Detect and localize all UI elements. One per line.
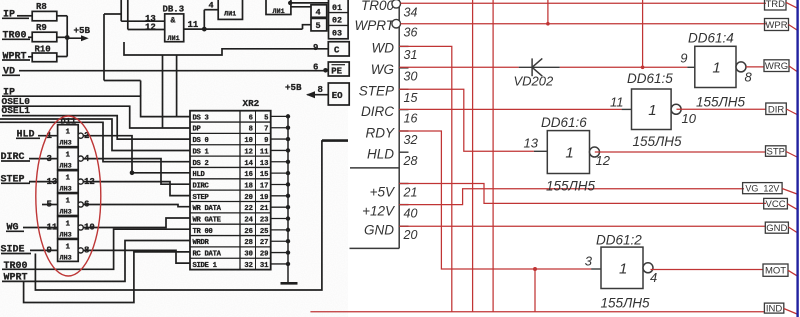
wire TR00 to R9 (28, 36, 32, 38)
SIDE underline (1, 253, 31, 255)
pin 4 cell box (311, 5, 327, 17)
wire bottom bus to IND (310, 311, 765, 313)
wire VD underline (2, 74, 20, 76)
diode VD202 cathode bar (531, 58, 533, 76)
resistor R10 (32, 53, 57, 62)
XR2 row divider 6 (190, 178, 271, 180)
wire RDY to DD61:2 input (399, 131, 591, 269)
svg-text:28: 28 (403, 154, 418, 168)
svg-text:1: 1 (619, 260, 627, 277)
wire vertical bus 1 from top (472, 0, 474, 312)
wire junction down to bottom bus (534, 269, 536, 312)
net label TRD (765, 0, 787, 10)
wire SIDE net loop to scan edge (35, 141, 348, 290)
scanned paper noise (0, 0, 348, 317)
XR2 pin column divider (255, 111, 257, 270)
junction ground bus row DS 2 (286, 160, 290, 164)
net label MOT (763, 264, 788, 276)
wire DIRC to DD61:5 input (399, 108, 621, 110)
junction node on pin 11 net (202, 27, 207, 32)
wire to inverter 4 pin 5 (42, 204, 58, 206)
XR2 row HLD ground stub (271, 172, 288, 174)
XR2 row WRDR ground stub (271, 240, 288, 242)
junction ground bus row WRDR (286, 239, 290, 243)
XR2 row divider 5 (190, 166, 271, 168)
wire into gate1 input (204, 9, 218, 11)
inverter 4 output bubble (78, 202, 83, 207)
connector tick pin 31 (399, 45, 408, 47)
svg-text:1: 1 (565, 145, 573, 162)
svg-text:TR00: TR00 (361, 0, 395, 13)
wire WPRT to R10 (28, 56, 32, 58)
XR2 row divider 3 (190, 144, 271, 146)
XR2 row DS 1 ground stub (271, 149, 288, 151)
wire HLD to inverter 1 (38, 135, 58, 137)
svg-text:DD61:4: DD61:4 (688, 31, 734, 46)
XR2 row DS 0 ground stub (271, 138, 288, 140)
resistor R8 (32, 11, 57, 20)
diode VD202 triangle (532, 58, 542, 76)
svg-text:TRD: TRD (765, 0, 785, 10)
IC pin cell C (328, 42, 349, 56)
IC pin cell PE (328, 62, 349, 76)
svg-text:WRG: WRG (765, 61, 788, 72)
wire R10 right (57, 56, 67, 58)
XR2 row divider 8 (190, 201, 271, 203)
DD61:6 input stub (534, 150, 547, 152)
junction above gate (288, 1, 292, 5)
wire WPRT net from top (547, 0, 549, 24)
XR2 row RC DATA ground stub (271, 252, 288, 254)
connector XR2 table (190, 111, 271, 270)
connector tick pin 32 (399, 130, 408, 132)
inverter 3 output bubble (78, 179, 83, 184)
resistor R9 (32, 32, 57, 42)
cell divider 01/02 (329, 12, 349, 14)
inverter D11 element 1 (LN3) (58, 125, 79, 147)
XR2 row divider 13 (190, 257, 271, 259)
wire into DB.3 pin 13 (121, 20, 165, 22)
net label VCC (764, 198, 788, 209)
junction ground bus row SIDE 1 (286, 262, 290, 266)
svg-text:HLD: HLD (367, 147, 394, 162)
inverter 6 output bubble (78, 248, 83, 253)
junction at PE pin (323, 68, 328, 73)
connector tick pin 28 (399, 151, 408, 153)
wire drop to DP row (162, 55, 164, 128)
svg-text:GND: GND (364, 222, 394, 237)
svg-text:1: 1 (648, 102, 656, 119)
wire inverter2 out to XR2 DIRC row (83, 159, 190, 185)
thick stub at scan edge (322, 139, 348, 141)
junction ground bus row STEP (286, 194, 290, 198)
wire SIDE to inverter 6 (30, 249, 58, 251)
junction ground bus row WR DATA (286, 205, 290, 209)
svg-text:MOT: MOT (765, 266, 786, 277)
PE overline (332, 64, 346, 66)
svg-text:16: 16 (404, 111, 418, 125)
XR2 row DIRC ground stub (271, 183, 288, 185)
svg-text:155ЛН5: 155ЛН5 (696, 95, 746, 110)
IC data pin cells 01-03 (329, 0, 349, 39)
connector tick pin 16 (399, 109, 408, 111)
wire DD61:2 out to MOT (651, 269, 764, 271)
wire WG to VD202 (399, 66, 519, 68)
connector edge vertical (398, 0, 400, 248)
net label VG_12V (743, 183, 783, 194)
wire TR00 to XR2 TR00 row (2, 229, 190, 269)
svg-text:VG_12V: VG_12V (745, 184, 779, 194)
DD61:5 input stub (622, 108, 632, 110)
wire +5V to VCC (399, 184, 766, 204)
wire +5V to EO pin 8 (307, 94, 328, 96)
XR2 row divider 12 (190, 246, 271, 248)
wire TR00 underline (2, 38, 30, 40)
svg-text:VD202: VD202 (514, 74, 555, 89)
wire OSEL0 to XR2 row DP (2, 106, 190, 128)
svg-text:21: 21 (403, 185, 418, 199)
XR2 row DS 2 ground stub (271, 161, 288, 163)
pin 5 cell box (311, 18, 327, 31)
junction ground bus row DIRC (286, 182, 290, 186)
inverter D11 element 4 (LN3) (58, 194, 79, 216)
wire inverter3 out to XR2 STEP row (83, 182, 190, 196)
wire WG to inverter 5 (23, 227, 58, 229)
svg-text:12: 12 (596, 153, 611, 168)
AND gate D8.3 (LI1) (165, 14, 184, 42)
net label DIR (766, 103, 787, 115)
inverter D11 element 3 (LN3) (58, 171, 79, 193)
connector circle pin 36 (392, 19, 401, 28)
WG underline (6, 230, 24, 232)
DD61:2 input stub (591, 268, 601, 270)
cell divider 02/03 (329, 24, 349, 26)
DIRC underline (1, 160, 30, 162)
AND gate (LI1) upper-right, cut at top (266, 0, 291, 15)
wire drop to DS3 row (176, 55, 178, 117)
connector circle pin 34 (392, 0, 401, 8)
inverter 5 output bubble (78, 225, 83, 230)
inverter 2 output bubble (78, 156, 83, 161)
svg-text:32: 32 (404, 133, 418, 147)
connector tick pin 30 (399, 67, 408, 69)
svg-text:RDY: RDY (365, 125, 394, 140)
junction ground bus row HLD (286, 171, 290, 175)
svg-text:15: 15 (404, 91, 418, 105)
svg-text:STEP: STEP (359, 84, 394, 99)
STEP underline (1, 182, 30, 184)
svg-text:13: 13 (524, 136, 539, 151)
wire to XR2 RC DATA row (24, 252, 190, 303)
wire GND to GND box (399, 225, 766, 227)
svg-text:IND: IND (766, 304, 783, 315)
wire into DB.3 pin 13 vertical (120, 0, 122, 21)
junction ground bus row WR GATE (286, 216, 290, 220)
wire inverter5 out to XR2 WR GATE row (83, 218, 190, 228)
wire DD61:4 out to WRG (746, 66, 764, 68)
wire WG net from top (642, 0, 644, 67)
XR2 row DS 3 ground stub (271, 115, 288, 117)
svg-text:DIRC: DIRC (361, 104, 394, 119)
junction ground bus row TR 00 (286, 228, 290, 232)
wire IP to R8 (17, 15, 32, 17)
wire vertical left net (103, 14, 105, 81)
wire inverter4 out to XR2 WR DATA row (83, 205, 190, 207)
wire +12V to VG_12V (399, 189, 744, 205)
XR2 row divider 4 (190, 155, 271, 157)
wire WD down to bottom bus (399, 46, 452, 311)
XR2 row WR DATA ground stub (271, 206, 288, 208)
junction ground bus row DS 3 (286, 114, 290, 118)
junction ground bus row DS 0 (286, 137, 290, 141)
XR2 name/pin divider (239, 111, 241, 270)
wire into IC pin 01 (290, 2, 328, 4)
svg-text:31: 31 (404, 48, 418, 62)
junction WPRT net (546, 22, 550, 26)
svg-text:30: 30 (404, 70, 418, 84)
junction WG net (641, 66, 645, 70)
wire DD61:6 out to STP (595, 151, 766, 153)
inverter D11 element 6 (LN3) (58, 239, 79, 261)
wire DS3 drop upper part (140, 81, 142, 97)
junction HLD row (130, 171, 135, 176)
net label IND (764, 303, 783, 313)
svg-text:+12V: +12V (362, 203, 396, 218)
wire WPRT underline (2, 59, 30, 61)
wire to counter pin 4 (291, 6, 311, 8)
svg-text:DD61:5: DD61:5 (627, 71, 673, 86)
HLD underline (16, 137, 40, 139)
svg-text:4: 4 (650, 270, 657, 285)
junction on DD61:2 input net (533, 267, 537, 271)
svg-text:DD61:2: DD61:2 (596, 233, 642, 248)
wire WPRT to WPR (401, 23, 767, 25)
wire pin11 net to counter pin 5 (303, 25, 312, 29)
ground symbol bar (281, 282, 298, 285)
wire into DB.3 pin 12 vertical (127, 0, 129, 30)
svg-text:VCC: VCC (766, 199, 786, 210)
highlight ellipse around D11 (36, 116, 101, 276)
svg-text:155ЛН5: 155ЛН5 (601, 296, 651, 311)
inverter U DD61:4 (695, 46, 736, 87)
XR2 row DP ground stub (271, 127, 288, 129)
XR2 row divider 7 (190, 189, 271, 191)
wire inverter1 out to XR2 HLD row (83, 136, 190, 173)
diode VD202 lead wire (519, 66, 560, 68)
svg-text:WPRT: WPRT (355, 18, 396, 33)
wire R8 right (57, 15, 67, 17)
svg-text:DD61:6: DD61:6 (541, 115, 587, 130)
wire TR00 to TRD (401, 2, 767, 4)
IC pin cell EO (328, 83, 349, 105)
net label GND (765, 222, 788, 233)
svg-text:20: 20 (403, 228, 418, 242)
connector tick pin 20 (399, 225, 408, 227)
wire horizontal to DS3 drop (104, 80, 141, 82)
svg-text:36: 36 (404, 26, 418, 40)
net label WRG (764, 60, 789, 72)
svg-text:155ЛН5: 155ЛН5 (546, 179, 596, 194)
wire into DB.3 pin 12 (128, 29, 165, 31)
wire inverter6 out to XR2 SIDE1 row (83, 250, 190, 263)
wire +5V arrow shaft (67, 37, 82, 39)
inverter U DD61:6 (547, 131, 589, 174)
XR2 row divider 11 (190, 235, 271, 237)
svg-text:155ЛН5: 155ЛН5 (633, 134, 683, 149)
svg-text:WG: WG (371, 62, 394, 77)
svg-text:3: 3 (585, 254, 593, 269)
junction ground bus row RC DATA (286, 250, 290, 254)
XR2 row WR GATE ground stub (271, 218, 288, 220)
svg-text:10: 10 (682, 111, 697, 126)
wire DB.3 output pin 11 (184, 28, 303, 30)
connector tick pin 40 (399, 204, 408, 206)
svg-text:40: 40 (404, 206, 418, 220)
inverter D11 element 2 (LN3) (58, 148, 79, 170)
net label WPR (765, 19, 789, 31)
svg-text:WD: WD (372, 41, 395, 56)
wire VD202 to DD61:4 input (560, 66, 688, 68)
XR2 row divider 1 (190, 121, 271, 123)
XR2 row divider 10 (190, 223, 271, 225)
wire vertical bus 2 from top (492, 0, 494, 312)
wire pin11 net up (203, 10, 205, 29)
svg-text:+5V: +5V (370, 184, 396, 199)
wire DIRC to inverter 2 (29, 158, 58, 160)
AND gate (LI1) upper-left, cut at top (218, 0, 242, 19)
wire WPRT to XR2 WRDR row (2, 241, 190, 282)
inverter 1 output bubble (78, 133, 83, 138)
wire STEP to DD61:6 input (399, 89, 534, 151)
wire to XR2 row DS2 (0, 122, 190, 161)
XR2 row TR 00 ground stub (271, 229, 288, 231)
junction ground bus row DS 1 (286, 148, 290, 152)
net label STP (766, 146, 787, 157)
inverter U DD61:5 (632, 89, 672, 130)
wire to counter C input (124, 42, 328, 55)
page frame edge (blue) (796, 0, 798, 317)
svg-text:1: 1 (712, 59, 720, 76)
connector bottom line (350, 247, 400, 249)
wire resistor common vertical (66, 16, 68, 57)
wire to XR2 row DS1 (0, 119, 190, 151)
wire DD61:5 out to DIR (677, 108, 767, 110)
+5V arrow head (EO) (306, 91, 315, 98)
ground bus vertical (287, 116, 289, 282)
XR2 row STEP ground stub (271, 195, 288, 197)
svg-text:11: 11 (610, 95, 624, 110)
svg-text:8: 8 (745, 70, 753, 85)
wire VD to PE pin (19, 70, 328, 72)
XR2 row SIDE 1 ground stub (271, 263, 288, 265)
svg-text:WPR: WPR (765, 20, 787, 31)
wire R9 right (57, 36, 67, 38)
svg-text:DIR: DIR (768, 104, 785, 115)
svg-text:9: 9 (680, 51, 687, 66)
XR2 row divider 2 (190, 132, 271, 134)
+5V arrow head (81, 35, 89, 41)
junction ground bus row DP (286, 126, 290, 130)
connector group separator (350, 167, 399, 169)
svg-text:34: 34 (404, 6, 418, 20)
wire STEP to inverter 3 (29, 181, 58, 183)
wire stub at top (104, 13, 121, 15)
svg-text:STP: STP (767, 147, 785, 158)
wire OSEL1 to XR2 row DS0 (2, 116, 190, 140)
connector tick pin 21 (399, 183, 408, 185)
svg-text:GND: GND (766, 223, 787, 234)
wire IP underline (2, 17, 29, 19)
DD61:4 input stub (687, 66, 695, 68)
connector tick pin 15 (399, 88, 408, 90)
inverter U DD61:2 (601, 247, 643, 288)
XR2 row divider 9 (190, 212, 271, 214)
wire IP to XR2 row DS3 (2, 96, 190, 116)
inverter D11 element 5 (LN3) (58, 217, 79, 239)
junction R9/+5V (65, 35, 70, 40)
